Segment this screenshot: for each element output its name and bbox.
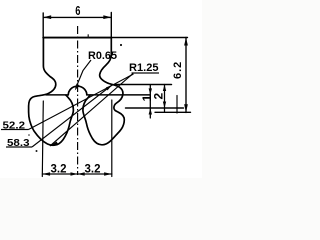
svg-text:6: 6	[75, 3, 80, 18]
svg-text:58.3: 58.3	[7, 137, 30, 149]
svg-text:3.2: 3.2	[85, 163, 101, 175]
svg-text:3.2: 3.2	[51, 163, 67, 175]
svg-text:2: 2	[152, 93, 166, 100]
svg-text:R1.25: R1.25	[129, 62, 159, 74]
svg-text:52.2: 52.2	[3, 119, 26, 131]
svg-text:R0.65: R0.65	[88, 50, 117, 62]
svg-text:6.2: 6.2	[172, 61, 184, 79]
